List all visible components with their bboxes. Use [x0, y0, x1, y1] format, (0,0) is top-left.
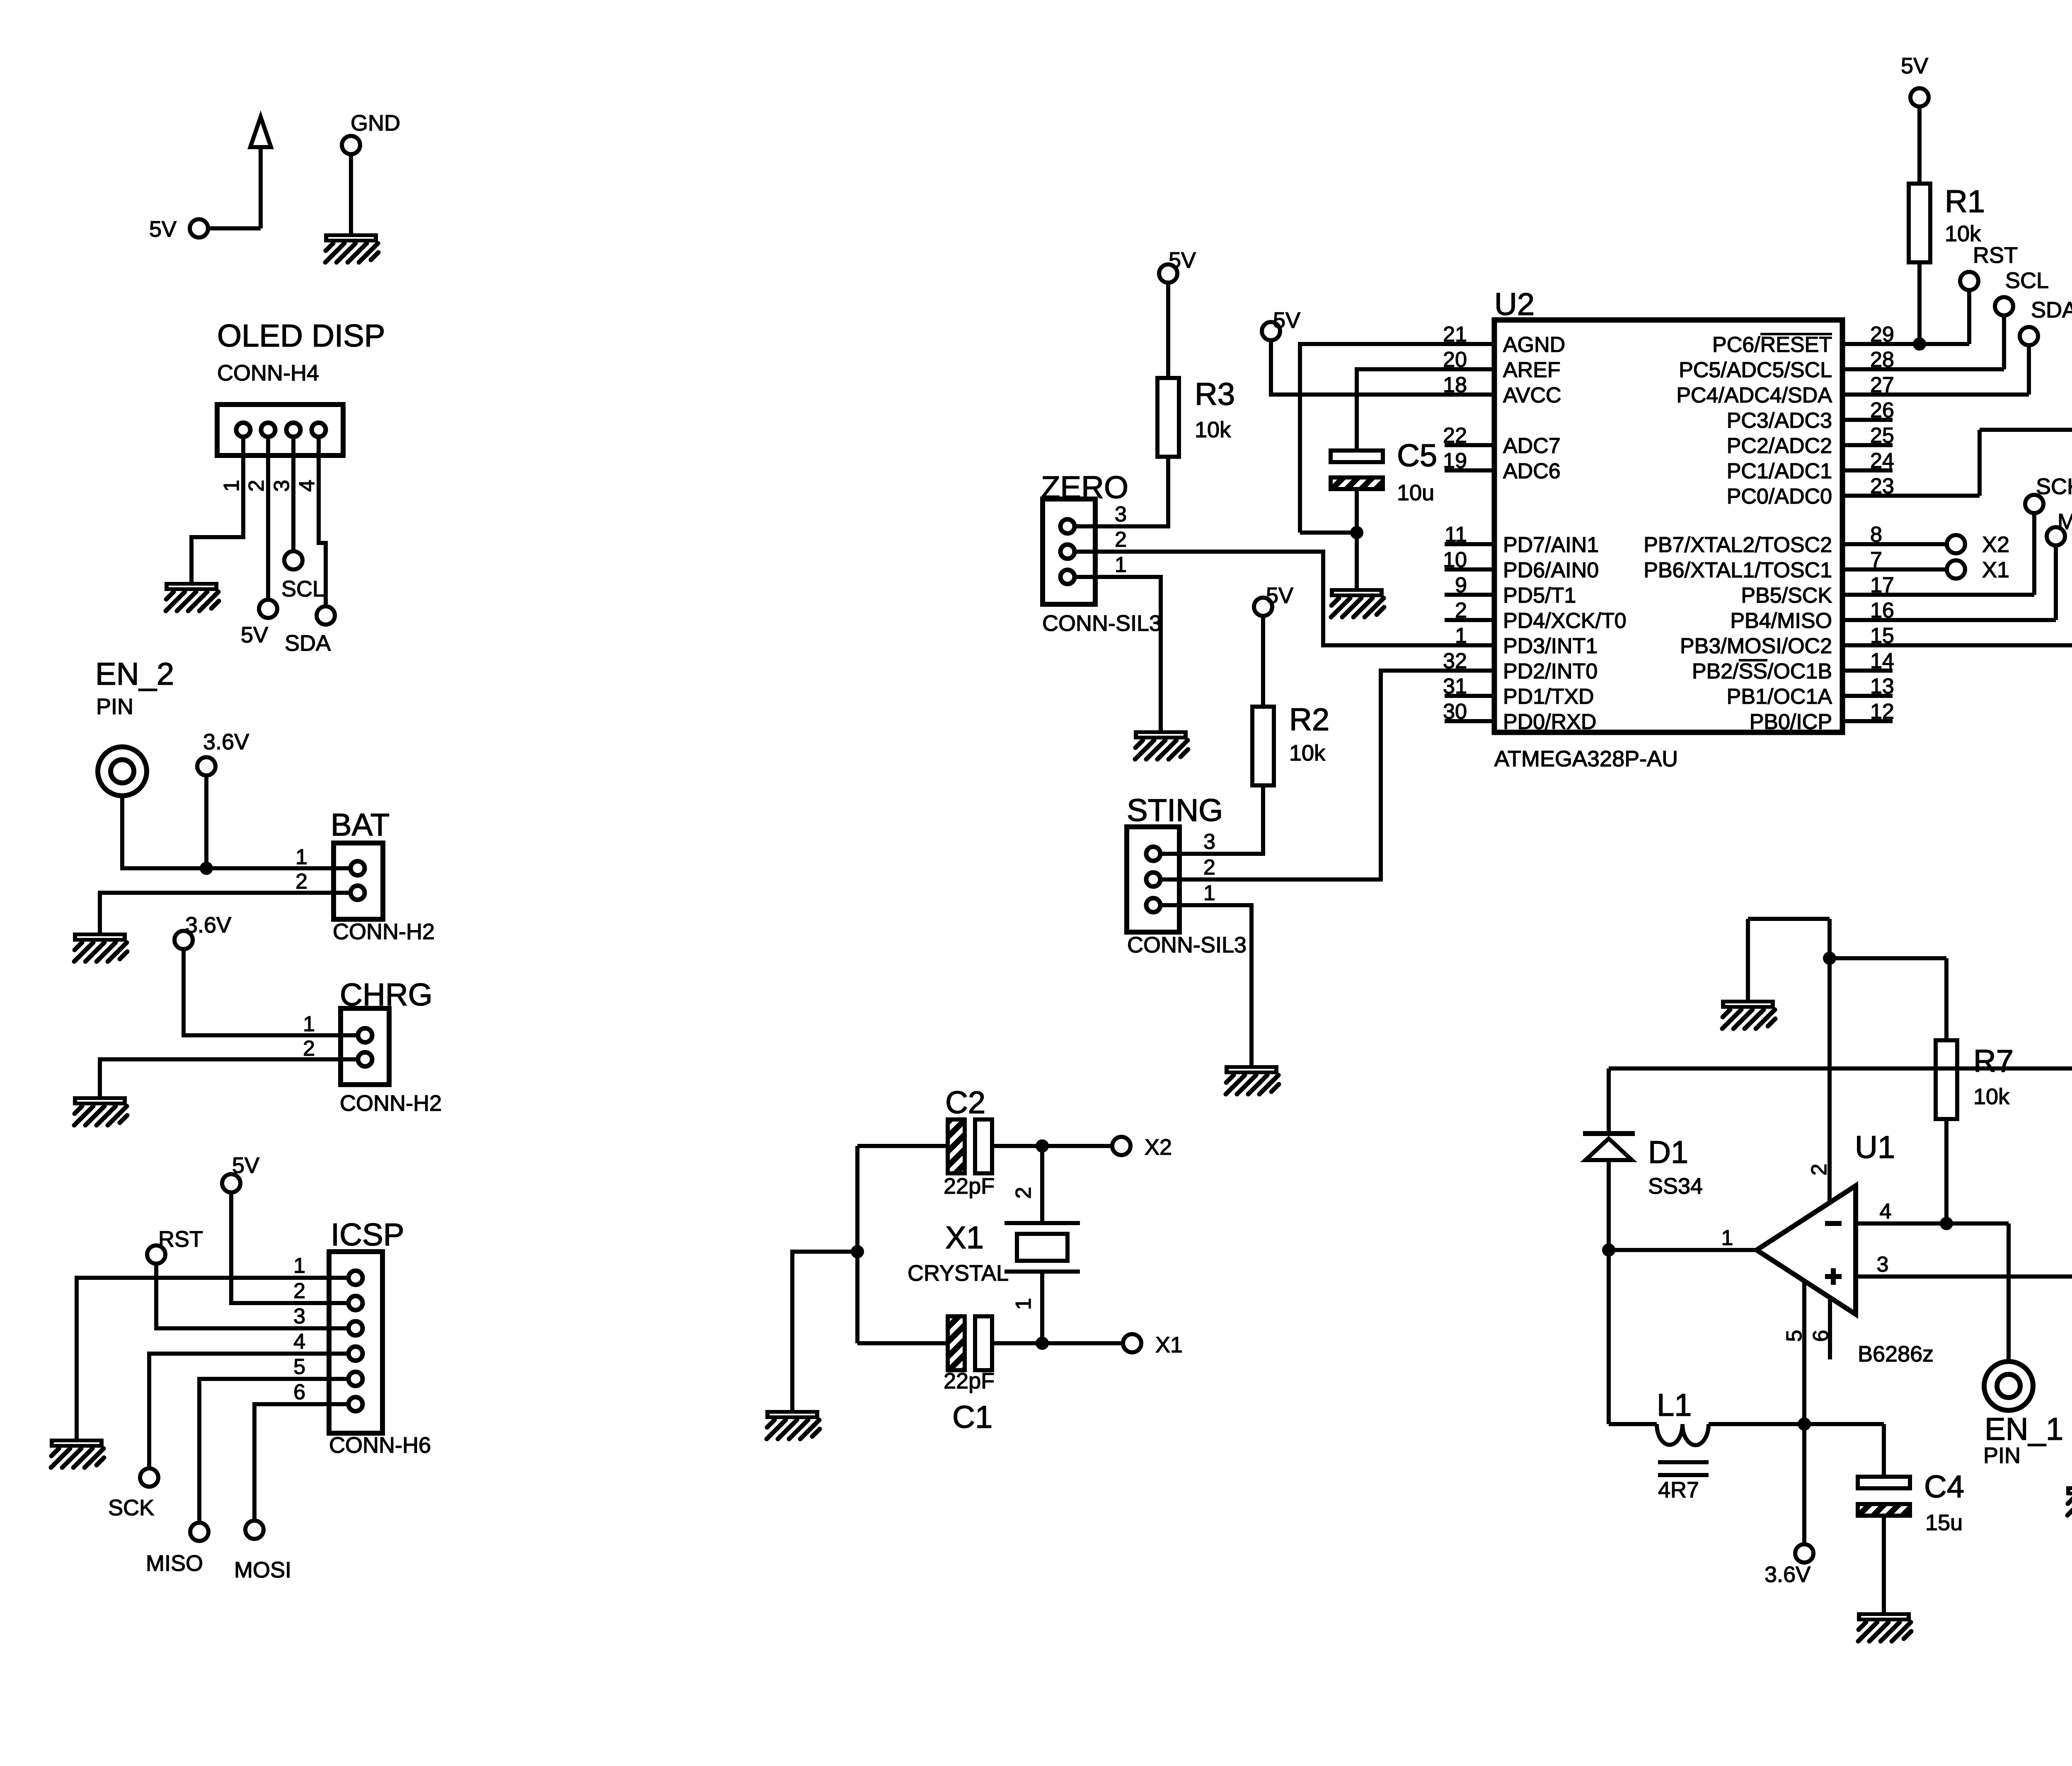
- svg-text:CONN-H6: CONN-H6: [329, 1433, 431, 1458]
- node SCL (OLED pin3): [281, 551, 325, 601]
- wire U1 minus input: [1856, 1223, 2009, 1361]
- svg-text:5V: 5V: [1273, 308, 1300, 333]
- svg-text:PD2/INT0: PD2/INT0: [1503, 659, 1598, 683]
- svg-text:11: 11: [1445, 523, 1467, 547]
- wire D1 to U1 output: [1607, 1160, 1611, 1424]
- svg-text:PD7/AIN1: PD7/AIN1: [1503, 533, 1599, 557]
- svg-text:1: 1: [303, 1012, 315, 1036]
- svg-text:PD6/AIN0: PD6/AIN0: [1503, 558, 1599, 582]
- svg-text:U2: U2: [1494, 287, 1535, 322]
- svg-text:AREF: AREF: [1503, 358, 1561, 382]
- junction dot (L1/pin5): [1798, 1417, 1811, 1431]
- wire 5V to R2: [1261, 616, 1265, 707]
- pin number 1 (U1): [1721, 1226, 1733, 1250]
- svg-text:PC2/ADC2: PC2/ADC2: [1727, 434, 1832, 458]
- svg-text:PB3/MOSI/OC2: PB3/MOSI/OC2: [1680, 634, 1832, 658]
- node X2 (U2): [1947, 532, 2009, 557]
- IC U2 ATMEGA328P-AU: [1443, 287, 1894, 771]
- wire C5 to ground: [1355, 490, 1359, 588]
- pin number 3 (OLED): [270, 480, 294, 492]
- svg-text:STING: STING: [1127, 793, 1223, 828]
- ground (U1 top): [1721, 1000, 1775, 1029]
- svg-text:1: 1: [1115, 553, 1127, 577]
- connector BAT CONN-H2: [331, 807, 435, 944]
- pin number 6 (ICSP): [293, 1380, 305, 1404]
- wire ICSP pin5 to MISO: [199, 1379, 349, 1523]
- svg-text:3.6V: 3.6V: [203, 729, 249, 754]
- wire crystal left rail: [855, 1146, 859, 1343]
- pin number 2 (OLED): [244, 480, 269, 492]
- svg-text:CONN-H4: CONN-H4: [217, 361, 319, 385]
- pin number 2 (BAT): [295, 870, 307, 894]
- wire L1 right to C4: [1709, 1424, 1884, 1475]
- pin number 1 (crystal): [1012, 1298, 1036, 1310]
- wire ICSP pin1 to ground: [77, 1278, 349, 1439]
- svg-text:14: 14: [1870, 649, 1894, 673]
- svg-text:5V: 5V: [1266, 583, 1293, 608]
- crystal X1: [908, 1220, 1080, 1286]
- svg-text:C1: C1: [952, 1400, 992, 1435]
- pin number 3 (STING): [1203, 830, 1215, 854]
- svg-text:5V: 5V: [149, 217, 177, 242]
- svg-text:3.6V: 3.6V: [1765, 1562, 1811, 1587]
- svg-text:AVCC: AVCC: [1503, 383, 1561, 407]
- wire C1 left: [857, 1341, 948, 1345]
- svg-text:26: 26: [1870, 398, 1894, 422]
- node MOSI (ICSP pin6): [234, 1521, 291, 1582]
- svg-text:SDA: SDA: [285, 631, 331, 656]
- pin number 5 (ICSP): [293, 1355, 305, 1379]
- wire C2 right to X2: [992, 1144, 1112, 1148]
- svg-text:9: 9: [1455, 573, 1467, 597]
- wire U2 pin17 to SCK: [1893, 513, 2034, 595]
- svg-text:7: 7: [1870, 548, 1882, 572]
- wire OLED pin3 to SCL: [291, 455, 295, 551]
- svg-text:PD1/TXD: PD1/TXD: [1503, 685, 1594, 709]
- junction dot (crystal gnd): [851, 1245, 864, 1258]
- svg-text:25: 25: [1870, 424, 1894, 448]
- ground (BAT pin2): [73, 933, 127, 962]
- svg-text:OLED DISP: OLED DISP: [217, 318, 385, 354]
- wire 5V to AVCC: [1271, 340, 1445, 395]
- svg-text:3: 3: [1877, 1252, 1889, 1277]
- svg-text:3: 3: [1115, 502, 1127, 526]
- svg-text:5: 5: [293, 1355, 305, 1379]
- svg-text:2: 2: [1203, 855, 1215, 879]
- wire U1 plus input: [1856, 1274, 2072, 1279]
- wire AREF to C5: [1357, 369, 1445, 450]
- svg-text:1: 1: [293, 1254, 305, 1278]
- svg-text:MOSI: MOSI: [234, 1558, 291, 1582]
- svg-text:PD3/INT1: PD3/INT1: [1503, 634, 1598, 658]
- ground (R5): [2066, 1486, 2072, 1515]
- svg-text:PC4/ADC4/SDA: PC4/ADC4/SDA: [1676, 383, 1832, 407]
- wire U1 output: [1609, 1248, 1757, 1252]
- wire U1 pin6 stub: [1828, 1298, 1832, 1359]
- svg-text:CRYSTAL: CRYSTAL: [908, 1261, 1009, 1286]
- svg-text:4: 4: [293, 1330, 305, 1354]
- ground (CHRG pin2): [73, 1096, 127, 1125]
- wire U2 pin16 to MISO: [1893, 545, 2056, 620]
- svg-text:3: 3: [293, 1304, 305, 1328]
- svg-text:30: 30: [1443, 700, 1467, 724]
- wire STING pin2 to U2 PD2: [1179, 671, 1445, 879]
- wire R3 to ZERO pin3: [1095, 457, 1168, 526]
- svg-text:24: 24: [1870, 449, 1894, 473]
- pin number 1 (ICSP): [293, 1254, 305, 1278]
- pin number 3 (ICSP): [293, 1304, 305, 1328]
- node SCK (U2): [2025, 474, 2072, 513]
- node X2 (crystal): [1112, 1135, 1172, 1160]
- pin number 3 (U1): [1877, 1252, 1889, 1277]
- svg-text:CONN-H2: CONN-H2: [340, 1091, 442, 1116]
- wire OLED pin4 to SDA: [319, 455, 326, 606]
- svg-text:2: 2: [1115, 528, 1127, 552]
- power 5V (ICSP pin2): [222, 1153, 259, 1192]
- wire to 3.6V (L1): [1802, 1424, 1806, 1544]
- svg-text:C2: C2: [945, 1085, 985, 1120]
- svg-text:SS34: SS34: [1648, 1174, 1703, 1199]
- svg-text:EN_1: EN_1: [1985, 1412, 2063, 1447]
- junction dot (C5 gnd): [1350, 526, 1363, 539]
- resistor R2 10k: [1252, 702, 1329, 785]
- svg-text:17: 17: [1870, 573, 1894, 597]
- resistor R7 10k: [1936, 1040, 2014, 1119]
- svg-text:22pF: 22pF: [944, 1174, 995, 1199]
- power 3.6V (BAT): [197, 729, 249, 775]
- wire ICSP pin2 to 5V: [231, 1192, 349, 1303]
- connector STING CONN-SIL3: [1127, 793, 1247, 957]
- pin number 1 (BAT): [295, 845, 307, 869]
- capacitor C2 22pF: [944, 1085, 995, 1199]
- op-amp U1 B6286z: [1757, 1130, 1934, 1366]
- wire STING pin1 to ground: [1179, 905, 1251, 1065]
- svg-text:X1: X1: [1155, 1332, 1183, 1357]
- svg-text:R2: R2: [1289, 702, 1329, 737]
- power 5V (R3): [1159, 248, 1196, 283]
- wire EN_2 to BAT pin1: [122, 796, 351, 868]
- svg-text:AGND: AGND: [1503, 333, 1565, 357]
- svg-text:10k: 10k: [1945, 221, 1981, 246]
- wire OLED pin1 to ground: [191, 455, 243, 582]
- wire ZERO pin2 to U2 PD3: [1095, 552, 1445, 645]
- svg-text:R7: R7: [1973, 1044, 2014, 1079]
- svg-text:X2: X2: [1982, 532, 2009, 557]
- svg-text:3: 3: [270, 480, 294, 492]
- ground (C5): [1330, 588, 1384, 617]
- svg-text:1: 1: [295, 845, 307, 869]
- power 3.6V (L1): [1765, 1544, 1813, 1587]
- wire AGND: [1300, 344, 1445, 533]
- node RST (ICSP pin3): [147, 1227, 203, 1264]
- svg-text:C5: C5: [1397, 438, 1437, 473]
- wire C2 left: [857, 1144, 948, 1148]
- wire U2 pin7 to X1: [1893, 567, 1947, 572]
- svg-text:2: 2: [1807, 1164, 1831, 1176]
- wire R2 to STING pin3: [1179, 785, 1263, 854]
- svg-text:U1: U1: [1855, 1130, 1895, 1165]
- wire U2 pin28 to SCL: [1893, 315, 2004, 369]
- wire R7 bottom: [1944, 1119, 1949, 1223]
- pin number 4 (OLED): [295, 480, 319, 492]
- wire crystal pin2: [1040, 1146, 1044, 1223]
- svg-text:CONN-H2: CONN-H2: [333, 919, 435, 944]
- wire U1 pin2 gnd link: [1748, 919, 1830, 1000]
- junction dot (3.6V/EN_2/BAT): [200, 862, 213, 875]
- pin number 1 (CHRG): [303, 1012, 315, 1036]
- svg-text:R3: R3: [1195, 377, 1235, 412]
- svg-text:10k: 10k: [1973, 1084, 2010, 1109]
- svg-text:BAT: BAT: [331, 807, 390, 843]
- svg-text:MISO: MISO: [146, 1551, 203, 1576]
- svg-text:EN_2: EN_2: [95, 656, 174, 692]
- svg-text:PD4/XCK/T0: PD4/XCK/T0: [1503, 609, 1627, 633]
- ground (STING pin1): [1225, 1065, 1279, 1094]
- wire BAT pin2 to ground: [100, 893, 351, 933]
- svg-text:8: 8: [1870, 523, 1882, 547]
- svg-text:32: 32: [1443, 649, 1467, 673]
- wire U1 pin5: [1802, 1281, 1806, 1424]
- power 5V (OLED pin2): [241, 600, 277, 647]
- svg-text:SCL: SCL: [281, 577, 325, 601]
- power 3.6V (CHRG): [174, 913, 231, 949]
- svg-text:PB2/SS/OC1B: PB2/SS/OC1B: [1692, 659, 1832, 683]
- svg-text:21: 21: [1443, 322, 1467, 346]
- svg-text:ICSP: ICSP: [331, 1217, 404, 1252]
- pin number 4 (U1): [1880, 1199, 1892, 1223]
- resistor R3 10k: [1157, 377, 1235, 457]
- svg-text:22: 22: [1443, 424, 1467, 448]
- node RST (U2): [1960, 243, 2018, 290]
- svg-text:3: 3: [1203, 830, 1215, 854]
- wire OLED pin2 to 5V: [266, 455, 270, 600]
- svg-text:MISO: MISO: [2057, 509, 2072, 534]
- svg-text:PB7/XTAL2/TOSC2: PB7/XTAL2/TOSC2: [1644, 533, 1832, 557]
- svg-text:22pF: 22pF: [944, 1369, 995, 1393]
- pin number 3 (ZERO): [1115, 502, 1127, 526]
- svg-text:X2: X2: [1145, 1135, 1172, 1160]
- svg-text:6: 6: [293, 1380, 305, 1404]
- svg-text:B6286z: B6286z: [1858, 1342, 1934, 1366]
- svg-text:PC5/ADC5/SCL: PC5/ADC5/SCL: [1679, 358, 1832, 382]
- svg-text:PD5/T1: PD5/T1: [1503, 584, 1576, 608]
- ground (crystal): [765, 1410, 820, 1439]
- pin number 2 (crystal): [1012, 1187, 1036, 1199]
- svg-text:D1: D1: [1648, 1135, 1688, 1170]
- svg-text:PB5/SCK: PB5/SCK: [1741, 584, 1832, 608]
- pin number 1 (STING): [1203, 881, 1215, 905]
- pin number 6 (U1): [1809, 1330, 1833, 1342]
- pin EN_2: [95, 656, 174, 796]
- junction dot (crystal pin1): [1036, 1337, 1049, 1350]
- svg-text:16: 16: [1870, 598, 1894, 623]
- connector ZERO CONN-SIL3: [1041, 470, 1162, 636]
- svg-text:PB6/XTAL1/TOSC1: PB6/XTAL1/TOSC1: [1644, 558, 1832, 582]
- capacitor C4 15u: [1858, 1469, 1964, 1535]
- wire ZERO pin1 to ground: [1095, 577, 1161, 730]
- pin number 2 (ZERO): [1115, 528, 1127, 552]
- svg-text:PIN: PIN: [1983, 1443, 2021, 1468]
- power 5V (R1): [1901, 53, 1929, 107]
- svg-text:5V: 5V: [232, 1153, 259, 1178]
- svg-text:4: 4: [1880, 1199, 1892, 1223]
- svg-text:29: 29: [1870, 322, 1894, 346]
- svg-text:L1: L1: [1657, 1388, 1692, 1423]
- junction dot (R7/minus): [1940, 1217, 1953, 1230]
- node MISO (ICSP pin5): [146, 1523, 208, 1576]
- svg-text:CONN-SIL3: CONN-SIL3: [1042, 611, 1162, 636]
- pin number 2 (STING): [1203, 855, 1215, 879]
- diode D1 SS34: [1583, 1068, 1703, 1199]
- wire U2 pin23 to RV1 wiper: [1893, 430, 2072, 496]
- svg-text:4: 4: [295, 480, 319, 492]
- svg-text:1: 1: [220, 480, 244, 492]
- svg-text:1: 1: [1455, 624, 1467, 648]
- svg-text:1: 1: [1012, 1298, 1036, 1310]
- capacitor C5 10u: [1331, 438, 1437, 505]
- pin number 2 (ICSP): [293, 1279, 305, 1303]
- power 5V (R2): [1254, 583, 1293, 616]
- junction dot (crystal pin2): [1036, 1139, 1049, 1153]
- svg-text:ADC6: ADC6: [1503, 459, 1561, 483]
- svg-text:SCK: SCK: [108, 1495, 154, 1520]
- junction dot (R1/RST): [1913, 337, 1926, 351]
- wire 5V to R1: [1917, 107, 1922, 184]
- svg-text:ADC7: ADC7: [1503, 434, 1561, 458]
- svg-text:2: 2: [1455, 598, 1467, 623]
- wire C1 right to X1: [992, 1341, 1123, 1345]
- svg-text:CONN-SIL3: CONN-SIL3: [1127, 933, 1247, 957]
- wire R1 to PC6: [1917, 262, 1922, 344]
- node SCK (ICSP pin4): [108, 1468, 158, 1520]
- svg-text:10k: 10k: [1195, 417, 1231, 442]
- svg-text:PB1/OC1A: PB1/OC1A: [1727, 685, 1832, 709]
- wire ICSP pin4 to SCK: [149, 1354, 349, 1468]
- wire L1 left: [1609, 1422, 1657, 1426]
- wire 5V rail: [1609, 1066, 2072, 1071]
- node SDA (U2): [2020, 298, 2072, 345]
- svg-text:PC3/ADC3: PC3/ADC3: [1727, 409, 1832, 433]
- ground (OLED pin1): [165, 582, 219, 611]
- ground (C4): [1857, 1612, 1911, 1641]
- svg-text:X1: X1: [945, 1220, 984, 1255]
- inductor L1 4R7: [1657, 1388, 1709, 1502]
- svg-text:2: 2: [303, 1037, 315, 1061]
- svg-text:15: 15: [1870, 624, 1894, 648]
- svg-text:GND: GND: [351, 111, 400, 136]
- pin number 4 (ICSP): [293, 1330, 305, 1354]
- wire crystal to ground: [792, 1252, 857, 1410]
- svg-text:2: 2: [1012, 1187, 1036, 1199]
- power symbol 5V (top left): [149, 117, 271, 242]
- wire CHRG pin2 to ground: [100, 1059, 358, 1096]
- svg-text:PD0/RXD: PD0/RXD: [1503, 710, 1596, 734]
- wire U2 pin29 to RST: [1893, 290, 1969, 344]
- svg-text:1: 1: [1721, 1226, 1733, 1250]
- svg-text:5V: 5V: [241, 623, 268, 647]
- svg-text:5V: 5V: [1169, 248, 1196, 273]
- wire to R7 top: [1830, 958, 1946, 1040]
- power 5V (AVCC): [1262, 308, 1300, 340]
- svg-text:2: 2: [293, 1279, 305, 1303]
- wire U2 pin15 to MOSI: [1893, 574, 2072, 645]
- connector OLED DISP CONN-H4: [217, 318, 385, 455]
- ground (ZERO pin1): [1134, 730, 1188, 759]
- pin number 2 (CHRG): [303, 1037, 315, 1061]
- wire ICSP pin3 to RST: [156, 1264, 349, 1328]
- node X1 (U2): [1947, 557, 2009, 582]
- wire U2 pin8 to X2: [1893, 542, 1947, 546]
- wire C4 to ground: [1882, 1517, 1886, 1612]
- svg-text:1: 1: [1203, 881, 1215, 905]
- svg-text:ATMEGA328P-AU: ATMEGA328P-AU: [1494, 746, 1678, 771]
- wire U2 pin27 to SDA: [1893, 345, 2029, 395]
- resistor R1 10k: [1909, 184, 1985, 262]
- ground symbol GND (top left): [324, 111, 400, 262]
- wire 3.6V to CHRG pin1: [184, 949, 351, 1035]
- junction dot (pin2/R7): [1823, 952, 1836, 965]
- svg-text:10: 10: [1443, 548, 1467, 572]
- svg-text:2: 2: [295, 870, 307, 894]
- wire ICSP pin6 to MOSI: [254, 1404, 349, 1521]
- svg-text:R1: R1: [1945, 184, 1985, 219]
- svg-text:15u: 15u: [1925, 1510, 1963, 1535]
- pin number 5 (U1): [1782, 1330, 1806, 1342]
- node X1 (crystal): [1123, 1332, 1183, 1357]
- svg-text:PB0/ICP: PB0/ICP: [1750, 710, 1832, 734]
- svg-text:X1: X1: [1982, 557, 2009, 582]
- svg-text:31: 31: [1443, 674, 1467, 698]
- svg-text:2: 2: [244, 480, 269, 492]
- node MISO (U2): [2047, 509, 2072, 545]
- svg-text:PC1/ADC1: PC1/ADC1: [1727, 459, 1832, 483]
- wire 3.6V down: [204, 775, 208, 868]
- svg-text:20: 20: [1443, 348, 1467, 372]
- svg-text:PB4/MISO: PB4/MISO: [1730, 609, 1832, 633]
- svg-text:3.6V: 3.6V: [185, 913, 231, 938]
- svg-text:4R7: 4R7: [1658, 1478, 1699, 1502]
- svg-text:12: 12: [1870, 700, 1894, 724]
- junction dot (U1 output): [1602, 1243, 1615, 1257]
- node SDA (OLED pin4): [285, 606, 335, 656]
- svg-text:RST: RST: [158, 1227, 203, 1252]
- svg-text:SCL: SCL: [2005, 268, 2049, 293]
- svg-text:SDA: SDA: [2031, 298, 2072, 322]
- node SCL (U2): [1995, 268, 2049, 315]
- svg-text:10u: 10u: [1397, 480, 1434, 505]
- svg-text:10k: 10k: [1289, 741, 1326, 766]
- svg-text:PIN: PIN: [96, 694, 133, 719]
- pin EN_1: [1983, 1361, 2063, 1468]
- wire crystal pin1: [1040, 1272, 1044, 1343]
- pin number 1 (OLED): [220, 480, 244, 492]
- svg-text:C4: C4: [1924, 1469, 1964, 1504]
- connector ICSP CONN-H6: [329, 1217, 431, 1458]
- svg-text:RST: RST: [1973, 243, 2018, 268]
- svg-text:18: 18: [1443, 373, 1467, 397]
- svg-text:13: 13: [1870, 674, 1894, 698]
- ground (ICSP pin1): [50, 1439, 104, 1468]
- pin number 1 (ZERO): [1115, 553, 1127, 577]
- wire U1 pin2 vertical: [1828, 919, 1832, 1202]
- svg-text:PC6/RESET: PC6/RESET: [1712, 333, 1832, 357]
- pin number 2 (U1): [1807, 1164, 1831, 1176]
- svg-text:5V: 5V: [1901, 53, 1928, 78]
- svg-text:23: 23: [1870, 474, 1894, 498]
- capacitor C1 22pF: [944, 1316, 995, 1435]
- svg-text:19: 19: [1443, 449, 1467, 473]
- svg-text:27: 27: [1870, 373, 1894, 397]
